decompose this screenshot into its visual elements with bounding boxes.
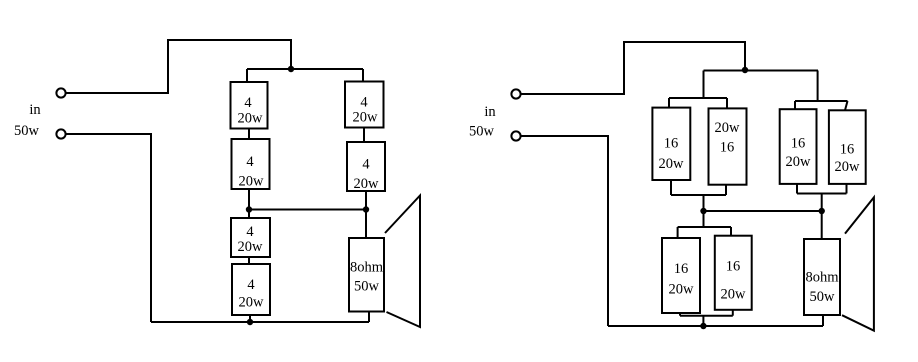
wire node B to speaker SP1 <box>365 210 367 239</box>
resistor R7 16 20w <box>652 108 690 180</box>
wire R1 to R2 <box>248 129 250 140</box>
wire bar to R11 <box>677 227 679 238</box>
wire node D to speaker SP2 <box>821 211 823 239</box>
wire group2 to node D <box>821 194 823 212</box>
wire bottom rail <box>151 321 369 323</box>
wire group2 bottom bar <box>797 193 847 195</box>
terminal J2 (left circuit, bottom input) <box>56 129 65 138</box>
svg-text:20w: 20w <box>353 110 379 126</box>
svg-text:16: 16 <box>791 136 806 152</box>
wire R2 to node A <box>248 189 250 209</box>
svg-text:20w: 20w <box>786 154 812 170</box>
wire R11 to group3 bottom bar <box>679 313 681 316</box>
speaker SP1 cone <box>385 196 420 328</box>
resistor R8 16 20w <box>709 108 747 184</box>
wire top rail horizontal <box>247 68 363 70</box>
wire R4 to node B <box>365 191 367 209</box>
wire R9 to group2 bottom bar <box>796 184 798 194</box>
svg-text:20w: 20w <box>715 120 741 136</box>
svg-text:4: 4 <box>246 154 254 170</box>
wire SP2 to bottom rail right <box>822 315 824 326</box>
speaker SP1 8ohm 50w body <box>349 238 384 312</box>
node C junction dot <box>700 208 706 214</box>
svg-text:in: in <box>29 102 41 118</box>
wire bar to R12 <box>730 227 732 236</box>
wire rail to group1 bar <box>703 71 705 99</box>
wire bar to R7 <box>668 98 670 108</box>
wire group2 top bar <box>795 100 848 102</box>
node A junction dot <box>246 206 252 212</box>
svg-text:20w: 20w <box>669 282 695 298</box>
resistor R5 4 20w <box>231 218 270 257</box>
svg-text:20w: 20w <box>239 174 265 190</box>
svg-text:50w: 50w <box>469 124 495 140</box>
node B junction dot <box>363 206 369 212</box>
terminal J1 (left circuit, top input) <box>56 88 65 97</box>
wire J1 to top rail <box>66 40 291 93</box>
resistor R1 4 20w <box>231 82 268 129</box>
svg-text:50w: 50w <box>14 123 40 139</box>
wire J4 to bottom rail right <box>521 136 608 326</box>
svg-text:20w: 20w <box>354 176 380 192</box>
svg-text:16: 16 <box>840 142 855 158</box>
svg-text:4: 4 <box>244 95 252 111</box>
wire SP1 to bottom rail <box>368 312 370 323</box>
svg-text:50w: 50w <box>354 279 380 295</box>
wire R7 to group1 bottom bar <box>670 180 672 195</box>
wire R6 to bottom rail <box>249 315 251 322</box>
wire group1 top bar <box>669 97 727 99</box>
wire rail to R1 <box>246 69 248 82</box>
wire rail to R3 <box>362 69 364 82</box>
terminal J3 (right circuit, top input) <box>511 89 520 98</box>
wire J3 to top rail right <box>521 42 745 94</box>
wire rail to group2 bar <box>817 71 819 102</box>
wire R10 to group2 bottom bar <box>846 184 848 194</box>
wire bar to R10 <box>845 101 848 110</box>
svg-text:16: 16 <box>664 136 679 152</box>
wire group3 to bottom rail right <box>702 316 704 326</box>
speaker SP2 cone <box>842 197 874 330</box>
terminal J4 (right circuit, bottom input) <box>511 131 520 140</box>
svg-text:in: in <box>484 104 496 120</box>
wire group3 top bar <box>678 226 731 228</box>
resistor R4 4 20w <box>347 142 385 191</box>
svg-text:4: 4 <box>246 224 254 240</box>
svg-text:16: 16 <box>720 140 735 156</box>
wire bar to R8 <box>726 98 728 108</box>
svg-text:20w: 20w <box>238 111 264 127</box>
wire node A to R5 <box>248 210 250 219</box>
resistor R3 4 20w <box>345 82 384 128</box>
wire J2 to bottom rail <box>66 134 151 322</box>
svg-text:16: 16 <box>726 259 741 275</box>
wire group1 to node C <box>703 195 705 211</box>
wire group1 bottom bar <box>671 194 726 196</box>
svg-text:20w: 20w <box>721 287 747 303</box>
svg-text:8ohm: 8ohm <box>350 260 384 276</box>
wire bar to R9 <box>794 101 796 109</box>
svg-text:20w: 20w <box>659 156 685 172</box>
wire R12 to group3 bottom bar <box>732 310 734 316</box>
wire R8 to group1 bottom bar <box>725 185 727 195</box>
node top junction dot <box>288 66 294 72</box>
svg-text:20w: 20w <box>835 159 861 175</box>
svg-text:50w: 50w <box>810 289 836 305</box>
svg-text:8ohm: 8ohm <box>805 269 839 285</box>
wire node C to group3 bar <box>703 211 705 227</box>
node bottom junction dot <box>247 319 253 325</box>
speaker SP2 8ohm 50w body <box>804 239 840 315</box>
resistor R9 16 20w <box>780 109 817 184</box>
node top right junction dot <box>742 67 748 73</box>
resistor R12 16 20w <box>715 236 752 310</box>
wire top rail right horizontal <box>704 70 819 72</box>
svg-text:20w: 20w <box>239 295 265 311</box>
wire bottom rail right <box>608 325 823 327</box>
svg-text:16: 16 <box>674 261 689 277</box>
node D junction dot <box>819 208 825 214</box>
svg-text:20w: 20w <box>238 239 264 255</box>
svg-text:4: 4 <box>247 277 255 293</box>
wire group3 bottom bar <box>680 315 733 317</box>
wire node A to node B <box>249 209 366 211</box>
resistor R11 16 20w <box>662 238 700 313</box>
svg-text:4: 4 <box>360 95 368 111</box>
resistor R10 16 20w <box>829 110 866 184</box>
wire R5 to R6 <box>248 257 250 264</box>
wire R3 to R4 <box>363 128 365 143</box>
svg-text:4: 4 <box>362 157 370 173</box>
wire node C to node D <box>704 210 822 212</box>
resistor R2 4 20w <box>232 139 270 189</box>
node bottom right junction dot <box>700 323 706 329</box>
resistor R6 4 20w <box>232 264 270 315</box>
